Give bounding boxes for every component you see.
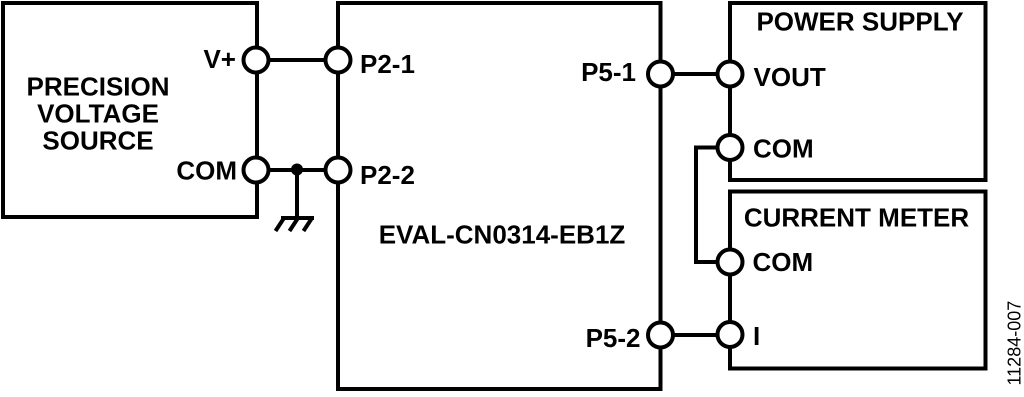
svg-text:COM: COM — [176, 156, 237, 186]
svg-text:PRECISION: PRECISION — [26, 72, 169, 102]
svg-text:V+: V+ — [203, 44, 236, 74]
box precision voltage source — [3, 3, 257, 217]
terminal V+ — [244, 48, 269, 73]
wire P5-2 to I — [661, 333, 731, 337]
wire ground branch — [295, 170, 299, 217]
terminal VOUT — [718, 62, 743, 87]
svg-text:P5-2: P5-2 — [586, 323, 641, 353]
terminal COM (voltage source) — [244, 158, 269, 183]
terminal COM (power supply) — [718, 135, 743, 160]
svg-text:SOURCE: SOURCE — [42, 126, 153, 156]
terminal P2-1 — [326, 48, 351, 73]
wire V+ to P2-1 — [257, 58, 338, 62]
svg-text:EVAL-CN0314-EB1Z: EVAL-CN0314-EB1Z — [379, 220, 626, 250]
svg-text:11284-007: 11284-007 — [1005, 301, 1024, 386]
box EVAL-CN0314-EB1Z — [338, 3, 661, 389]
terminal P5-2 — [648, 323, 673, 348]
terminal COM (current meter) — [718, 250, 743, 275]
label precision voltage source — [26, 72, 169, 156]
junction dot — [291, 164, 303, 176]
box current meter — [730, 192, 986, 369]
svg-text:P5-1: P5-1 — [581, 57, 636, 87]
wire P5-1 to VOUT — [661, 72, 731, 76]
svg-text:P2-2: P2-2 — [360, 160, 415, 190]
box power supply — [730, 3, 986, 180]
svg-text:VOLTAGE: VOLTAGE — [37, 99, 159, 129]
wire power COM to meter COM — [696, 148, 730, 263]
svg-text:COM: COM — [753, 134, 814, 164]
terminal P2-2 — [326, 158, 351, 183]
terminal P5-1 — [648, 62, 673, 87]
svg-text:VOUT: VOUT — [754, 62, 826, 92]
svg-text:I: I — [753, 321, 760, 351]
terminal I — [718, 322, 743, 347]
svg-text:CURRENT METER: CURRENT METER — [744, 203, 970, 233]
svg-text:COM: COM — [753, 247, 814, 277]
wire COM to P2-2 — [257, 168, 338, 172]
svg-text:POWER SUPPLY: POWER SUPPLY — [756, 7, 963, 37]
ground — [276, 218, 315, 231]
svg-text:P2-1: P2-1 — [360, 49, 415, 79]
